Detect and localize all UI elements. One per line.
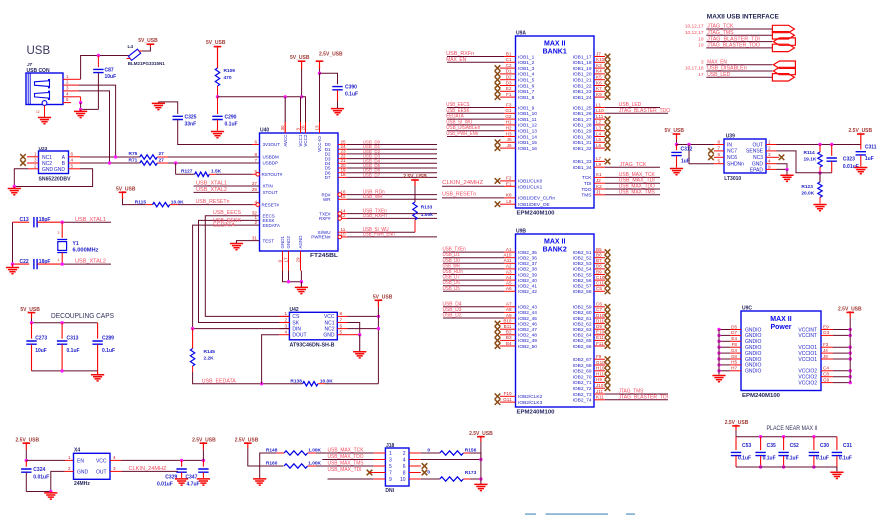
junction: [479, 477, 482, 480]
svg-text:IOB1_20: IOB1_20: [573, 72, 592, 78]
svg-text:IOB1_15: IOB1_15: [518, 140, 537, 146]
svg-text:VCC-IO: VCC-IO: [317, 136, 322, 152]
svg-text:5: 5: [340, 330, 343, 335]
junction: [717, 334, 720, 337]
svg-text:2: 2: [66, 80, 69, 85]
svg-text:E10: E10: [596, 330, 605, 335]
svg-text:7: 7: [389, 470, 392, 476]
svg-text:A5: A5: [506, 281, 512, 286]
svg-text:IOB2_37: IOB2_37: [518, 261, 537, 267]
power 2.5V_USB out: [857, 133, 865, 135]
svg-text:4: 4: [403, 457, 406, 463]
wire CLKIN_24MHZ: [110, 470, 122, 472]
junction: [25, 459, 28, 462]
no-connect X: [495, 343, 501, 349]
svg-text:H1: H1: [506, 120, 512, 125]
svg-text:IOB2_59: IOB2_59: [573, 305, 592, 311]
pin 2 GND: [28, 168, 39, 170]
svg-text:CLKIN_24MHZ: CLKIN_24MHZ: [129, 466, 167, 472]
svg-text:C290: C290: [225, 115, 237, 121]
svg-text:IOB2_52: IOB2_52: [573, 256, 592, 262]
svg-text:1: 1: [768, 139, 771, 144]
svg-text:R75: R75: [129, 151, 138, 157]
ground: [157, 102, 159, 104]
svg-text:1: 1: [66, 74, 69, 79]
junction: [849, 346, 852, 349]
junction: [849, 375, 852, 378]
svg-text:J4: J4: [823, 348, 828, 353]
svg-text:K2: K2: [596, 184, 602, 189]
svg-text:10: 10: [400, 477, 406, 483]
svg-text:JTAG_TCK: JTAG_TCK: [620, 162, 648, 168]
pin 5 GND: [69, 168, 81, 170]
svg-text:IOB1_29: IOB1_29: [573, 129, 592, 135]
no-connect X: [605, 116, 611, 122]
svg-text:USB_MAX_TMS: USB_MAX_TMS: [619, 189, 655, 195]
svg-text:EPM240M100: EPM240M100: [742, 393, 780, 399]
svg-text:10,17,18: 10,17,18: [685, 66, 704, 72]
svg-text:A7: A7: [506, 302, 512, 307]
svg-text:J1: J1: [596, 190, 601, 195]
svg-text:4: 4: [768, 159, 771, 164]
ground: [80, 109, 82, 111]
svg-text:5V_USB: 5V_USB: [116, 187, 136, 193]
svg-text:33nF: 33nF: [185, 121, 197, 127]
svg-text:SN65220DBV: SN65220DBV: [39, 177, 72, 183]
resistor R145: [192, 329, 194, 349]
svg-text:C312: C312: [681, 147, 693, 153]
J18 pin 6: [409, 465, 421, 467]
junction: [318, 72, 321, 75]
wire USB_XTAL2: [62, 263, 111, 265]
svg-text:G4: G4: [731, 348, 738, 353]
svg-text:JTAG_BLASTER_TDO: JTAG_BLASTER_TDO: [619, 108, 670, 114]
svg-text:IOB1_27: IOB1_27: [573, 117, 592, 123]
svg-text:L10: L10: [596, 108, 604, 113]
wire USB_MAX_TMS: [308, 465, 316, 467]
capacitor C347: [202, 460, 204, 466]
svg-text:IOB2_35: IOB2_35: [518, 250, 537, 256]
svg-text:0: 0: [427, 469, 430, 475]
svg-text:IOB2_36: IOB2_36: [518, 256, 537, 262]
wire R148 gnd: [276, 452, 284, 454]
svg-text:TEST: TEST: [263, 238, 275, 243]
ground: [300, 282, 302, 288]
svg-text:XTIN: XTIN: [263, 184, 273, 189]
junction: [377, 315, 380, 318]
svg-text:5V_USB: 5V_USB: [665, 128, 685, 134]
svg-text:2.2K: 2.2K: [204, 356, 215, 362]
wire NC2 tie: [348, 328, 379, 330]
svg-text:C311: C311: [865, 144, 877, 150]
svg-text:18: 18: [341, 172, 347, 177]
junction: [13, 185, 16, 188]
svg-text:USB_XTAL1: USB_XTAL1: [196, 180, 227, 186]
svg-text:H9: H9: [596, 377, 602, 382]
svg-text:A10: A10: [503, 253, 512, 258]
svg-text:IOB2_67: IOB2_67: [573, 357, 592, 363]
svg-text:GND2: GND2: [286, 236, 291, 249]
junction: [114, 155, 117, 158]
ground shell: [44, 105, 46, 117]
svg-text:C313: C313: [67, 336, 79, 342]
svg-text:IOB1_4: IOB1_4: [518, 72, 535, 78]
wire AVCC feed: [218, 96, 302, 98]
svg-text:BLM21PG3315N1: BLM21PG3315N1: [128, 61, 165, 67]
svg-text:C35: C35: [767, 443, 776, 449]
wire TEST gnd: [237, 241, 260, 244]
svg-text:GND1: GND1: [280, 236, 285, 249]
svg-text:30: 30: [280, 125, 285, 131]
junction: [60, 321, 63, 324]
no-connect X: [495, 326, 501, 332]
wire C323 bottom: [820, 172, 832, 174]
svg-text:3: 3: [768, 152, 771, 157]
wire X4 gnd: [64, 470, 73, 472]
J18 pin 3: [374, 459, 386, 461]
svg-text:7: 7: [717, 146, 720, 151]
svg-text:29: 29: [295, 257, 300, 263]
svg-text:L1: L1: [596, 102, 602, 107]
svg-text:L4: L4: [128, 44, 134, 50]
U42 pin 1 CS: [279, 315, 289, 317]
svg-text:7: 7: [254, 158, 257, 163]
U42 pin 8 VCC: [337, 315, 347, 317]
svg-text:C289: C289: [102, 336, 114, 342]
ground: [97, 371, 99, 375]
svg-text:IOB1_1: IOB1_1: [518, 54, 535, 60]
no-connect X: [495, 332, 501, 338]
svg-text:A9: A9: [506, 313, 512, 318]
no-connect X: [605, 261, 611, 267]
svg-text:USB_PWR_ENn: USB_PWR_ENn: [363, 232, 395, 238]
wire U23 gnd loop: [14, 169, 28, 187]
U40 pin 4 RESET#: [256, 203, 260, 207]
svg-text:3: 3: [113, 466, 116, 471]
wire EN: [26, 459, 65, 461]
svg-text:IOB2_39: IOB2_39: [518, 272, 537, 278]
svg-text:IOB1_9: IOB1_9: [518, 105, 535, 111]
svg-text:K3: K3: [596, 63, 602, 68]
wire C325 to 3V3OUT: [178, 120, 252, 145]
wire 5V to IN: [677, 144, 714, 146]
svg-text:K4: K4: [596, 69, 602, 74]
wire pin10 to R173: [421, 478, 440, 480]
svg-text:H3: H3: [506, 131, 512, 136]
svg-text:F3: F3: [506, 102, 512, 107]
svg-text:G1: G1: [505, 108, 512, 113]
svg-text:C273: C273: [35, 336, 47, 342]
wire cap bottom rail: [736, 466, 837, 468]
U40 pin 15 WR: [338, 198, 347, 200]
svg-text:J5: J5: [507, 137, 512, 142]
junction: [377, 327, 380, 330]
svg-text:AGND: AGND: [298, 235, 303, 249]
svg-text:6: 6: [254, 139, 257, 144]
svg-text:5: 5: [254, 169, 257, 174]
svg-text:VCC: VCC: [324, 314, 335, 320]
svg-text:USB_D2: USB_D2: [443, 313, 462, 319]
svg-text:10: 10: [698, 36, 704, 42]
wire D+ pin3: [71, 90, 79, 92]
svg-text:K9: K9: [596, 92, 602, 97]
no-connect X: [708, 155, 714, 161]
svg-text:L4: L4: [596, 131, 602, 136]
J18 pin 9: [374, 478, 386, 480]
no-connect X: [605, 368, 611, 374]
U42 pin 5 GND: [337, 334, 347, 336]
svg-text:D11: D11: [596, 318, 605, 323]
capacitor C273: [31, 323, 33, 339]
wire USB_MAX_TDO: [322, 459, 373, 461]
svg-text:TMS: TMS: [581, 193, 591, 199]
svg-text:F1: F1: [506, 92, 512, 97]
svg-text:IOB2_40: IOB2_40: [518, 278, 537, 284]
svg-text:CS: CS: [292, 314, 300, 320]
U40 pin 30 AVCC: [284, 122, 286, 133]
wire U9C vcc rail: [849, 318, 851, 383]
svg-text:E1: E1: [506, 182, 512, 187]
svg-text:A11: A11: [504, 258, 512, 263]
wire USB_EEDATA: [193, 372, 303, 384]
svg-text:17: 17: [283, 257, 288, 263]
svg-text:G9: G9: [823, 377, 830, 382]
svg-text:J10: J10: [596, 383, 604, 388]
svg-text:AT93C46DN-SH-B: AT93C46DN-SH-B: [290, 343, 335, 349]
junction: [479, 458, 482, 461]
svg-text:2.5V_USB: 2.5V_USB: [235, 437, 259, 443]
wire U40 ground: [283, 271, 302, 282]
bottom edge ui artifact bars: [525, 513, 536, 515]
svg-text:IOB1_18: IOB1_18: [573, 60, 592, 66]
svg-text:0.1uF: 0.1uF: [102, 348, 115, 354]
no-connect X: [605, 77, 611, 83]
svg-text:NC6: NC6: [727, 155, 737, 161]
svg-text:K5: K5: [596, 75, 602, 80]
svg-text:C87: C87: [105, 68, 114, 74]
no-connect X: [495, 178, 501, 184]
svg-text:IN: IN: [727, 142, 732, 148]
junction: [287, 280, 290, 283]
svg-text:SHDNn: SHDNn: [727, 162, 744, 168]
U40 pin 19 D6: [338, 172, 347, 174]
svg-text:SENSE: SENSE: [746, 149, 764, 155]
wire EEDATA to U42 DIN: [193, 225, 280, 329]
svg-text:GND: GND: [54, 167, 66, 173]
no-connect X: [495, 94, 501, 100]
svg-text:7: 7: [340, 317, 343, 322]
svg-text:L9: L9: [596, 162, 602, 167]
no-connect X: [605, 272, 611, 278]
svg-text:USB_EECS: USB_EECS: [213, 210, 242, 216]
svg-text:IOB1_16: IOB1_16: [518, 146, 537, 152]
svg-text:MAX_EN: MAX_EN: [446, 57, 466, 63]
capacitor C313: [61, 323, 63, 339]
svg-text:1: 1: [58, 258, 60, 262]
svg-text:IOB1_30: IOB1_30: [573, 134, 592, 140]
junction: [717, 369, 720, 372]
junction: [191, 327, 194, 330]
svg-text:R160: R160: [266, 460, 278, 466]
svg-text:MAX II: MAX II: [770, 316, 791, 323]
svg-text:4: 4: [284, 330, 287, 335]
pin 1: [63, 78, 71, 80]
svg-text:B11: B11: [504, 324, 512, 329]
power 5V_USB for U39: [673, 133, 681, 135]
svg-text:F3: F3: [823, 342, 829, 347]
no-connect X pin6: [409, 465, 421, 467]
svg-text:C4: C4: [823, 366, 829, 371]
svg-text:3V3OUT: 3V3OUT: [263, 142, 281, 147]
wire USB_RDn: [347, 194, 437, 196]
svg-text:0: 0: [427, 447, 430, 453]
svg-text:R173: R173: [465, 470, 477, 476]
svg-text:NC1: NC1: [324, 320, 334, 326]
U40 pin 3 VCC1: [300, 122, 302, 133]
svg-text:CLKIN_24MHZ: CLKIN_24MHZ: [442, 180, 483, 186]
svg-text:IOB1_8: IOB1_8: [518, 95, 535, 101]
svg-text:USB_WR: USB_WR: [363, 194, 383, 200]
capacitor C324: [25, 460, 27, 466]
junction: [782, 435, 785, 438]
wire USBDP net: [80, 162, 140, 164]
svg-text:DECOUPLING CAPS: DECOUPLING CAPS: [51, 313, 114, 320]
svg-text:J2: J2: [596, 178, 601, 183]
svg-text:6: 6: [71, 151, 74, 156]
no-connect X: [605, 380, 611, 386]
svg-text:IOB1/CLK1: IOB1/CLK1: [518, 185, 543, 191]
wire VCC 2.5V: [110, 459, 122, 461]
svg-text:A: A: [62, 155, 66, 161]
capacitor C31: [836, 437, 838, 450]
svg-text:IOB2_53: IOB2_53: [573, 261, 592, 267]
svg-text:MAXII USB INTERFACE: MAXII USB INTERFACE: [707, 14, 779, 21]
svg-text:5V_USB: 5V_USB: [290, 55, 310, 61]
wire pin4 gnd: [71, 96, 81, 98]
capacitor C329: [181, 460, 183, 466]
svg-text:A4: A4: [506, 275, 512, 280]
junction: [260, 382, 263, 385]
svg-text:IOB2_47: IOB2_47: [518, 327, 537, 333]
svg-text:5V_USB: 5V_USB: [20, 307, 40, 313]
wire decoupling top rail: [32, 322, 98, 324]
svg-text:IOB2_42: IOB2_42: [518, 289, 537, 295]
svg-text:C323: C323: [843, 157, 855, 163]
svg-text:B3: B3: [506, 335, 512, 340]
resistor R109: [217, 47, 219, 68]
svg-text:0.1uF: 0.1uF: [345, 91, 358, 97]
no-connect X: [708, 148, 714, 154]
svg-text:TDI: TDI: [584, 181, 592, 187]
ground: [253, 479, 266, 485]
svg-text:VCC: VCC: [96, 459, 107, 465]
junction: [717, 328, 720, 331]
junction: [717, 357, 720, 360]
U42 pin 4 DOUT: [279, 334, 289, 336]
resistor R127: [175, 163, 177, 174]
svg-text:R109: R109: [224, 68, 236, 74]
svg-text:NC7: NC7: [727, 149, 737, 155]
svg-text:3: 3: [66, 85, 69, 90]
svg-text:C8: C8: [823, 372, 829, 377]
svg-text:8: 8: [340, 311, 343, 316]
svg-text:PWREN#: PWREN#: [311, 235, 331, 240]
svg-text:C31: C31: [843, 443, 852, 449]
U40 pin 21 D4: [338, 162, 347, 164]
junction: [812, 435, 815, 438]
wire USB_D3: [347, 158, 437, 160]
svg-text:K1: K1: [596, 172, 602, 177]
ground: [50, 492, 52, 493]
no-connect X: [605, 374, 611, 380]
no-connect X: [605, 289, 611, 295]
U40 pin 17 GND2: [288, 251, 290, 271]
svg-text:4: 4: [66, 91, 69, 96]
wire DIN from EEDATA: [279, 328, 289, 330]
svg-text:J7: J7: [27, 62, 33, 67]
no-connect X: [605, 362, 611, 368]
svg-text:0.01uF: 0.01uF: [157, 482, 173, 488]
no-connect X: [495, 394, 501, 400]
no-connect X: [495, 201, 501, 207]
wire GND EPAD: [777, 164, 788, 170]
svg-text:2: 2: [34, 163, 37, 168]
svg-text:C347: C347: [185, 474, 197, 480]
svg-text:6: 6: [66, 97, 69, 102]
svg-text:D2: D2: [506, 75, 512, 80]
svg-text:5V_USB: 5V_USB: [373, 295, 393, 301]
wire USB_D5: [347, 167, 437, 169]
capacitor C289: [97, 323, 99, 339]
wire XTOUT label: [194, 191, 260, 193]
svg-text:2: 2: [768, 146, 771, 151]
svg-text:IOB1_7: IOB1_7: [518, 89, 535, 95]
svg-text:USB_PWR_ENn: USB_PWR_ENn: [446, 131, 478, 137]
wire cap top rail: [736, 436, 837, 438]
junction: [79, 108, 82, 111]
wire SENSE loop: [777, 151, 821, 173]
svg-text:470: 470: [224, 75, 232, 81]
no-connect X: [605, 310, 611, 316]
svg-text:4: 4: [254, 199, 257, 204]
svg-text:E11: E11: [596, 335, 604, 340]
svg-text:C1: C1: [506, 57, 512, 62]
svg-text:F11: F11: [596, 341, 604, 346]
svg-text:H5: H5: [731, 360, 737, 365]
U40 pin 16 RD#: [338, 193, 342, 197]
svg-text:VCCIO1: VCCIO1: [798, 357, 817, 363]
svg-text:XTOUT: XTOUT: [263, 190, 278, 195]
svg-text:IOB2_69: IOB2_69: [573, 369, 592, 375]
svg-text:G11: G11: [503, 397, 512, 402]
svg-text:3: 3: [389, 457, 392, 463]
svg-text:IOB1/DEV_CLRn: IOB1/DEV_CLRn: [518, 196, 555, 202]
svg-text:IOB1_32: IOB1_32: [573, 146, 592, 152]
svg-text:IOB2_70: IOB2_70: [573, 374, 592, 380]
svg-text:B5: B5: [596, 247, 602, 252]
svg-text:10,12,17: 10,12,17: [685, 30, 704, 36]
svg-text:K10: K10: [596, 57, 605, 62]
svg-text:TDO: TDO: [581, 187, 591, 193]
svg-text:J6: J6: [507, 143, 512, 148]
svg-text:H11: H11: [596, 371, 605, 376]
svg-text:IOB1_31: IOB1_31: [573, 140, 592, 146]
svg-text:EPAD: EPAD: [750, 167, 764, 173]
svg-text:D1: D1: [506, 69, 512, 74]
svg-text:IOB1_17: IOB1_17: [573, 54, 592, 60]
svg-text:9: 9: [389, 477, 392, 483]
svg-text:5: 5: [389, 464, 392, 470]
